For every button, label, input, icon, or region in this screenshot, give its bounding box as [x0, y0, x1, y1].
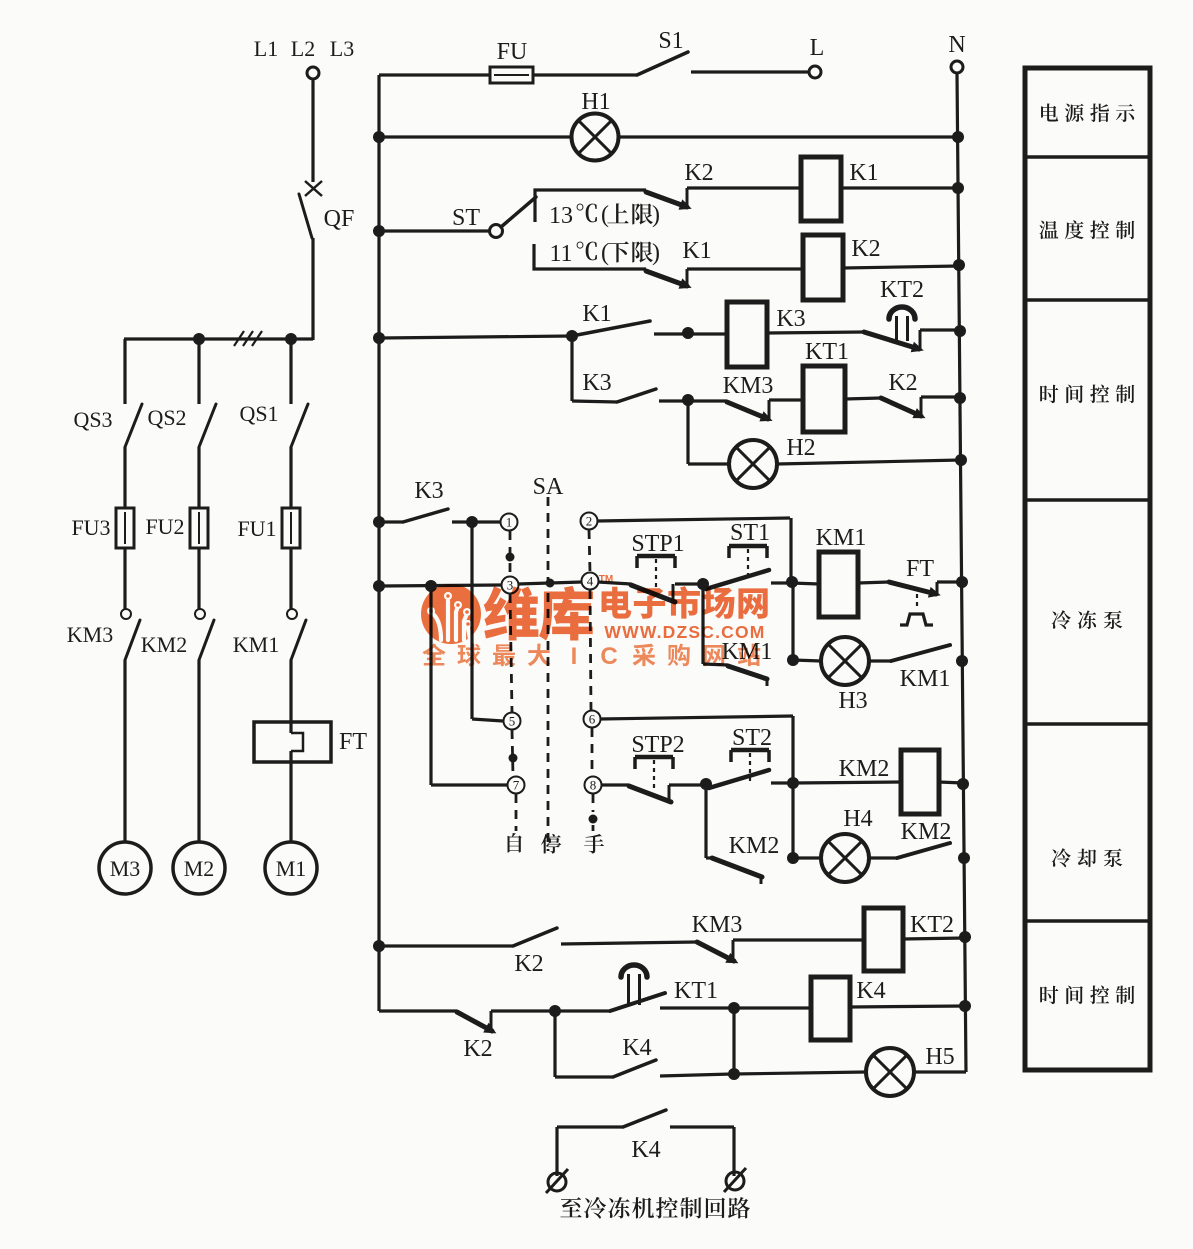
- svg-text:K3: K3: [582, 370, 611, 396]
- terminal L2 top: [307, 67, 319, 79]
- svg-text:FT: FT: [339, 729, 367, 755]
- selector terminal 3: [502, 577, 519, 594]
- wire bus down to QS2: [197, 339, 200, 404]
- contactor coil KM2: [793, 782, 901, 783]
- svg-text:(: (: [601, 202, 609, 228]
- selector terminal 1: [501, 514, 518, 531]
- table label power indication: [1041, 103, 1058, 121]
- contactor contact KM1: [287, 609, 297, 619]
- selector terminal 4: [582, 573, 599, 590]
- wire down from K4 coil row: [732, 1008, 735, 1074]
- timer coil KT2: [864, 908, 903, 971]
- wire to terminal 5: [470, 522, 473, 719]
- wire KM1 down to motor M1: [289, 660, 292, 843]
- contactor contact KM1 aux: [728, 666, 767, 679]
- table label time control 2: [1040, 986, 1058, 1004]
- selector column 1-3-5-7: [509, 531, 512, 576]
- svg-text:ST1: ST1: [730, 520, 770, 546]
- svg-text:KT1: KT1: [674, 978, 718, 1004]
- breaker QF cross mark: [305, 181, 322, 196]
- contactor contact KM2 aux: [712, 858, 762, 877]
- svg-text:H3: H3: [838, 688, 867, 714]
- svg-text:K2: K2: [463, 1036, 492, 1062]
- relay contact K1: [577, 321, 650, 335]
- wire ST row: [373, 225, 385, 237]
- svg-text:STP1: STP1: [631, 531, 684, 557]
- contact KM1 right: [869, 659, 891, 662]
- breaker QF arm: [299, 194, 312, 238]
- svg-text:K1: K1: [849, 160, 878, 186]
- svg-text:K2: K2: [888, 370, 917, 396]
- wire K2 KM3 KT2 row: [373, 940, 385, 952]
- wire to K3 coil: [688, 332, 727, 335]
- watermark slogan: [422, 643, 445, 665]
- junction bus-QS1: [285, 333, 297, 345]
- selector terminal 6: [584, 711, 601, 728]
- svg-text:L3: L3: [330, 36, 354, 61]
- motor M2: [173, 842, 225, 894]
- switch QS3: [125, 404, 142, 447]
- svg-text:8: 8: [590, 778, 597, 793]
- terminal L: [809, 66, 821, 78]
- svg-text:QS2: QS2: [147, 405, 186, 430]
- timed contact KT1: [555, 1009, 610, 1012]
- relay coil K4: [734, 1006, 811, 1009]
- wire K3 contact row: [570, 336, 573, 401]
- svg-text:FU3: FU3: [71, 515, 110, 540]
- table label cooling pump: [1052, 848, 1071, 867]
- svg-text:1: 1: [506, 515, 513, 530]
- wire bus down to QS1: [289, 339, 292, 404]
- wire H1 to N: [619, 135, 958, 138]
- wire bus down to QS3: [123, 339, 126, 404]
- terminal left: [548, 1173, 566, 1191]
- branch 13C upper limit: [535, 190, 646, 222]
- relay contact K3 selector: [403, 509, 448, 522]
- pushbutton ST1 NO: [706, 570, 769, 589]
- contactor contact KM3 aux: [697, 942, 734, 961]
- relay coil K2: [803, 235, 843, 300]
- svg-text:KM3: KM3: [67, 622, 113, 647]
- selector terminal 7: [508, 777, 525, 794]
- contactor contact KM3: [121, 609, 131, 619]
- pushbutton ST2 NO: [709, 770, 769, 788]
- fuse FU: [490, 67, 533, 83]
- svg-text:KM2: KM2: [901, 819, 952, 845]
- wire FU2 to KM2: [197, 548, 200, 609]
- wire ST1 parallel down: [791, 582, 794, 660]
- wire QS2 to FU2: [197, 447, 200, 508]
- svg-text:KM1: KM1: [233, 632, 279, 657]
- watermark weiku text: [484, 586, 539, 640]
- svg-text:4: 4: [587, 574, 594, 589]
- svg-text:KM2: KM2: [141, 632, 187, 657]
- relay coil K1: [801, 157, 841, 221]
- wire KM1 coil to FT: [858, 582, 889, 583]
- svg-text:H5: H5: [925, 1044, 954, 1070]
- svg-text:WWW.DZSC.COM: WWW.DZSC.COM: [604, 622, 765, 642]
- wire QS3 to FU3: [123, 447, 126, 508]
- selector terminal 5: [504, 713, 521, 730]
- wire K1 coil to N: [841, 186, 958, 189]
- svg-text:KT2: KT2: [880, 277, 924, 303]
- svg-text:2: 2: [586, 514, 593, 529]
- selector SA dashed line: [547, 497, 550, 851]
- table label freezing pump: [1052, 610, 1071, 629]
- svg-text:K2: K2: [851, 236, 880, 262]
- svg-text:): ): [652, 240, 660, 266]
- table divider: [1025, 919, 1150, 923]
- watermark electronics market text: [602, 587, 632, 619]
- svg-text:K3: K3: [776, 306, 805, 332]
- svg-text:H4: H4: [843, 806, 872, 832]
- left control rail: [377, 75, 380, 1011]
- motor M3: [99, 842, 151, 894]
- branch 11C lower limit: [534, 244, 646, 269]
- svg-text:5: 5: [509, 714, 516, 729]
- three-phase bus wire: [124, 337, 313, 340]
- wire terminal 6 branch: [600, 716, 793, 719]
- wire to right terminal: [732, 1127, 735, 1176]
- svg-text:QS1: QS1: [239, 401, 278, 426]
- svg-text:SA: SA: [533, 474, 564, 500]
- wire K2 KT1 K4 row: [379, 1009, 457, 1012]
- switch QS2: [199, 404, 216, 447]
- fuse FU2: [197, 508, 200, 548]
- wire KT1 to K2 contact: [845, 398, 881, 399]
- table divider: [1025, 155, 1150, 159]
- relay contact K2 NC: [457, 1012, 492, 1031]
- svg-text:L2: L2: [291, 36, 315, 61]
- svg-text:7: 7: [513, 778, 520, 793]
- N rail: [957, 73, 966, 1072]
- relay contact K3: [617, 389, 656, 402]
- svg-text:3: 3: [507, 578, 514, 593]
- thermostat ST: [490, 225, 503, 238]
- junction bus-QS2: [193, 333, 205, 345]
- timed contact KT2: [864, 332, 919, 349]
- svg-text:KM3: KM3: [692, 912, 743, 938]
- svg-text:11: 11: [549, 241, 572, 267]
- switch S1: [637, 52, 688, 75]
- wire K1 contact row: [373, 332, 385, 344]
- wire to terminal 7: [429, 586, 432, 785]
- wire H2 to N: [777, 460, 961, 464]
- svg-text:M2: M2: [184, 856, 215, 881]
- function table frame: [1025, 68, 1150, 1070]
- svg-text:QS3: QS3: [73, 407, 112, 432]
- svg-text:KM1: KM1: [816, 525, 867, 551]
- table label temperature control: [1039, 221, 1058, 239]
- wire to left terminal: [555, 1127, 558, 1176]
- relay contact K2: [513, 928, 557, 946]
- wire QS1 to FU1: [289, 447, 292, 508]
- wire top row: [379, 73, 637, 76]
- wire KM2 coil to N: [939, 782, 963, 783]
- wire KM2 down to motor M2: [197, 660, 200, 843]
- svg-text:K1: K1: [682, 238, 711, 264]
- svg-text:M1: M1: [276, 856, 307, 881]
- svg-text:FU1: FU1: [237, 516, 276, 541]
- svg-text:C: C: [600, 643, 617, 670]
- svg-text:): ): [652, 202, 660, 228]
- svg-text:KM1: KM1: [900, 666, 951, 692]
- fuse FU1: [289, 508, 292, 548]
- table label time control: [1040, 385, 1058, 403]
- thermal contact FT: [889, 582, 936, 594]
- watermark dzsc logo: [421, 574, 768, 670]
- motor M1: [265, 842, 317, 894]
- selector terminal 2: [581, 513, 598, 530]
- wire ST2 parallel down: [791, 783, 794, 858]
- svg-text:13: 13: [549, 203, 573, 229]
- wire terminal 3 to 4: [518, 582, 582, 584]
- table divider: [1025, 498, 1150, 502]
- svg-text:ST: ST: [452, 205, 480, 231]
- svg-text:KM3: KM3: [723, 373, 774, 399]
- bottom K4 contact to refrigerator control: [557, 1125, 623, 1128]
- wire K4 H5 row: [553, 1011, 556, 1077]
- svg-text:KM2: KM2: [839, 756, 890, 782]
- wire KM1 aux row: [701, 584, 704, 664]
- three-phase slash marks: [234, 331, 244, 346]
- lamp H5: [866, 1048, 914, 1096]
- svg-text:K4: K4: [631, 1137, 660, 1163]
- thermal relay FT box: [254, 722, 331, 762]
- wire KM3 down to motor M3: [123, 660, 126, 843]
- timer coil KT1: [803, 366, 845, 432]
- svg-text:FU2: FU2: [145, 514, 184, 539]
- contactor contact KM2: [195, 609, 205, 619]
- lamp H2: [729, 440, 777, 488]
- contactor contact KM3: [688, 399, 727, 402]
- svg-text:ST2: ST2: [732, 725, 772, 751]
- switch QS1: [291, 404, 308, 447]
- svg-text:K2: K2: [684, 160, 713, 186]
- svg-text:K4: K4: [622, 1035, 651, 1061]
- fuse FU3: [123, 508, 126, 548]
- svg-text:K2: K2: [514, 951, 543, 977]
- wire S1 to L: [691, 70, 809, 73]
- svg-text:6: 6: [589, 712, 596, 727]
- relay contact K4 bottom: [623, 1110, 666, 1127]
- relay contact K2 NC: [881, 398, 921, 416]
- wire terminal 2 branch: [597, 518, 790, 521]
- svg-text:TM: TM: [599, 574, 613, 585]
- svg-text:L1: L1: [254, 36, 278, 61]
- svg-text:S1: S1: [658, 28, 683, 54]
- wire H2 row: [686, 400, 689, 464]
- wire QF to bus: [311, 238, 314, 340]
- lamp H4: [821, 834, 869, 882]
- contact KM2 right: [869, 856, 897, 859]
- svg-text:I: I: [571, 643, 578, 670]
- wire L2 down to QF: [311, 79, 314, 182]
- svg-text:KT1: KT1: [805, 339, 849, 365]
- selector terminal 8: [585, 777, 602, 794]
- wire terminal 8 row: [601, 783, 629, 786]
- svg-text:N: N: [948, 32, 965, 58]
- svg-text:FU: FU: [497, 39, 528, 65]
- selector position labels: [508, 833, 522, 852]
- pushbutton STP1 NC: [631, 585, 675, 602]
- svg-text:K4: K4: [856, 978, 885, 1004]
- relay coil K3: [727, 302, 767, 367]
- svg-text:H2: H2: [786, 435, 815, 461]
- wire terminal 4 to STP1: [598, 582, 631, 584]
- svg-text:KT2: KT2: [910, 912, 954, 938]
- svg-text:KM2: KM2: [729, 833, 780, 859]
- contactor coil KM1: [792, 583, 819, 584]
- wire K3 selector row: [373, 516, 385, 528]
- wire rail to terminal 3: [373, 580, 385, 592]
- svg-text:M3: M3: [110, 856, 141, 881]
- table divider: [1025, 298, 1150, 302]
- wire K3 coil to KT2 contact: [767, 332, 864, 333]
- pushbutton STP2 NC: [629, 786, 671, 802]
- svg-text:STP2: STP2: [631, 732, 684, 758]
- wire FU3 to KM3: [123, 548, 126, 609]
- table divider: [1025, 722, 1150, 726]
- wire KM2 aux row: [704, 784, 707, 858]
- svg-text:K3: K3: [414, 478, 443, 504]
- wire H1 row left: [373, 131, 385, 143]
- wire K2 coil to N: [843, 266, 959, 268]
- svg-text:H1: H1: [581, 89, 610, 115]
- lamp H1: [572, 114, 619, 161]
- svg-text:QF: QF: [324, 206, 355, 232]
- relay contact K4: [613, 1060, 656, 1077]
- lamp H3: [821, 637, 869, 685]
- svg-text:K1: K1: [582, 301, 611, 327]
- svg-text:L: L: [810, 35, 825, 61]
- label to refrigerator control circuit: [560, 1197, 581, 1217]
- wire FU1 to KM1: [289, 548, 292, 609]
- svg-text:FT: FT: [906, 556, 934, 582]
- terminal right: [726, 1172, 744, 1190]
